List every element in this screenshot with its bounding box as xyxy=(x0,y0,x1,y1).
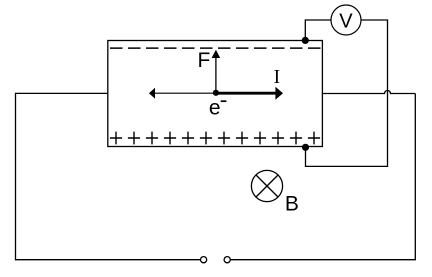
switch terminal left xyxy=(201,257,207,263)
conductor slab outline xyxy=(108,41,323,147)
negative charge row (dashed line, top face) xyxy=(110,47,321,49)
wire: switch to slab right (with hop over voltmeter wire) xyxy=(230,91,415,260)
wire: slab left to outer loop xyxy=(16,93,201,259)
current arrow I (right, thick) xyxy=(216,92,276,95)
svg-text:B: B xyxy=(285,193,299,216)
positive charge row (bottom face) xyxy=(110,132,320,145)
force arrow F (up) xyxy=(215,58,217,93)
svg-text:e: e xyxy=(209,97,221,120)
svg-text:F: F xyxy=(198,49,211,72)
magnetic field symbol B (circle with X, into page) xyxy=(251,170,282,201)
node top face xyxy=(302,37,309,44)
switch terminal right xyxy=(224,257,230,263)
voltmeter V xyxy=(331,5,361,35)
wire: voltmeter right terminal to bottom face xyxy=(306,20,388,166)
wire: voltmeter left terminal to top face xyxy=(305,20,331,40)
node bottom face xyxy=(302,144,309,151)
svg-text:I: I xyxy=(274,67,281,88)
electron velocity arrow (left) xyxy=(155,92,216,94)
electron node dot xyxy=(213,90,219,96)
svg-text:V: V xyxy=(339,10,353,32)
